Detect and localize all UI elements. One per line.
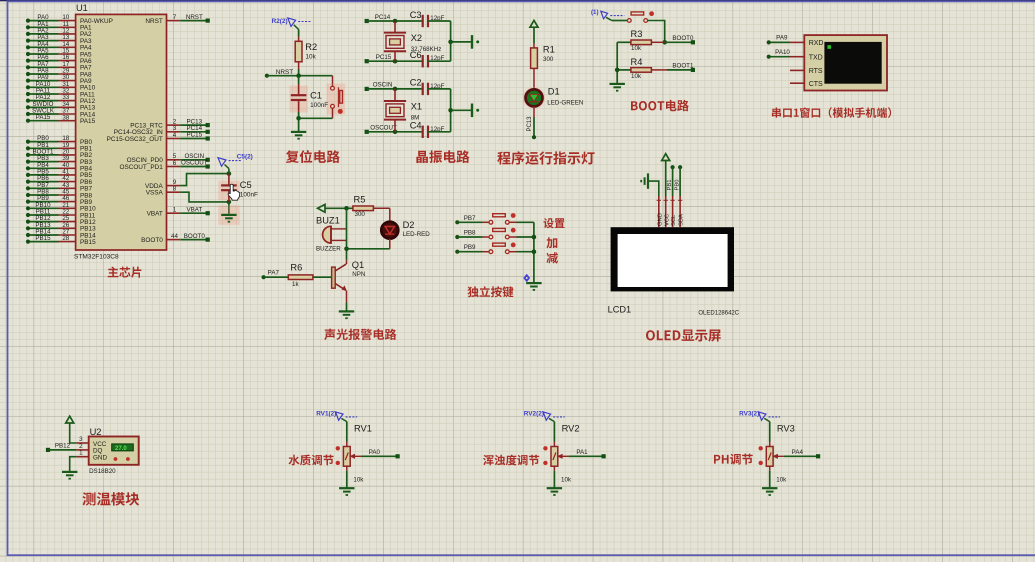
svg-text:BUZ1: BUZ1 (316, 216, 340, 226)
node PA7 (262, 270, 289, 280)
wire R6 to base (313, 276, 332, 278)
node PB7 (455, 215, 489, 225)
wire R1 to D1 (533, 68, 535, 89)
svg-text:C2: C2 (410, 78, 422, 88)
svg-text:PB7: PB7 (464, 215, 476, 222)
svg-text:PA9: PA9 (776, 35, 788, 42)
node PB9 (455, 244, 489, 254)
svg-text:300: 300 (355, 211, 366, 218)
svg-text:PC14: PC14 (375, 14, 391, 21)
svg-text:R3: R3 (631, 29, 643, 39)
wire to boot button (612, 20, 628, 22)
pin PA11 (32) with wire PA11 (26, 88, 95, 99)
svg-text:X2: X2 (411, 33, 422, 43)
svg-text:PC15-OSC32_OUT: PC15-OSC32_OUT (107, 136, 163, 143)
svg-text:C4: C4 (410, 121, 422, 131)
svg-text:CTS: CTS (809, 81, 823, 88)
wire bottom RV1 (346, 466, 348, 488)
pin PA8 (29) with wire PA8 (26, 68, 92, 79)
ground RV1 (339, 488, 354, 495)
text 复位电路 (286, 150, 340, 163)
potentiometer RV2 10k (543, 424, 579, 484)
text 设置 (544, 218, 565, 228)
svg-text:U2: U2 (90, 427, 102, 437)
pin PB1 (19) with wire PB1 (26, 142, 93, 153)
pin PB6 (42) with wire PB6 (26, 175, 93, 186)
node NRST (265, 69, 333, 78)
svg-text:RV1(2): RV1(2) (316, 410, 336, 417)
pin PB10 (21) with wire PB10 (26, 202, 96, 213)
pin OSCIN_PD0 (5) net OSCIN (127, 153, 210, 164)
pin PA1 (11) with wire PA1 (26, 21, 92, 32)
net label RV2(2) flying wire (524, 410, 565, 421)
pin PB2 (20) with wire BOOT1 (26, 148, 93, 159)
svg-text:R5: R5 (354, 194, 366, 204)
power bar terminal (472, 104, 479, 118)
svg-text:4: 4 (173, 132, 177, 139)
resistor R6 1k (288, 263, 313, 288)
svg-text:PB15: PB15 (80, 239, 96, 246)
wire button PB9 to bus (509, 251, 534, 253)
svg-text:PC13: PC13 (527, 116, 533, 132)
power terminal arrow U2 (66, 416, 74, 423)
pin PA14 (37) with wire SWCLK (26, 108, 96, 119)
svg-text:44: 44 (171, 233, 178, 240)
wire button PB8 to bus (509, 236, 534, 238)
svg-text:PB12: PB12 (55, 443, 71, 450)
ground U2 (62, 472, 77, 479)
LED D2 LED-RED (381, 220, 430, 239)
svg-text:PC15: PC15 (187, 132, 203, 139)
ground OLED rotated (641, 173, 648, 188)
svg-text:PB9: PB9 (464, 244, 476, 251)
svg-text:NPN: NPN (352, 271, 365, 278)
crystal X2 32.768KHz (384, 21, 441, 61)
ground RV3 (762, 488, 777, 495)
svg-text:Q1: Q1 (352, 260, 364, 270)
push button PB8 (489, 228, 516, 239)
wire key bus (532, 222, 537, 283)
pin PB13 (26) with wire PB13 (26, 222, 96, 233)
svg-text:RV1: RV1 (354, 424, 372, 434)
capacitor C2 12pF (410, 78, 451, 95)
wire caps common (448, 89, 471, 132)
svg-text:7: 7 (173, 14, 177, 21)
pin VBAT (1) net VBAT (147, 206, 210, 217)
wire button bottom to C1 bottom node (296, 108, 332, 120)
net label (1) flying wire (591, 9, 624, 21)
svg-text:PB1: PB1 (667, 180, 673, 191)
pin PA4 (14) with wire PA4 (26, 41, 92, 52)
svg-text:R2(2): R2(2) (272, 18, 288, 25)
svg-text:27.0: 27.0 (115, 446, 127, 452)
svg-text:10k: 10k (631, 45, 642, 52)
pin RXD wire PA9 (767, 35, 805, 45)
push button PB9 (489, 243, 516, 254)
wire power to R5 node (325, 206, 353, 211)
svg-text:RV2: RV2 (562, 424, 580, 434)
pin PA3 (13) with wire PA3 (26, 34, 92, 45)
svg-text:DS18B20: DS18B20 (89, 468, 116, 475)
svg-text:RTS: RTS (809, 68, 823, 75)
svg-text:RXD: RXD (809, 40, 824, 47)
node C5 top junction (227, 171, 232, 176)
wire VCC pin (665, 161, 667, 196)
node PC14 (365, 14, 422, 24)
svg-text:PA10: PA10 (775, 49, 790, 56)
node OSCOUT (365, 125, 422, 135)
svg-text:X1: X1 (411, 102, 422, 112)
wire VCC to R1 (533, 28, 535, 48)
pin PB4 (40) with wire PB4 (26, 162, 93, 173)
svg-text:PB15: PB15 (35, 235, 51, 242)
node PB8 (455, 230, 489, 240)
svg-text:8: 8 (173, 186, 177, 193)
svg-text:OSCOUT_PD1: OSCOUT_PD1 (119, 164, 163, 171)
ground Q1 (339, 311, 354, 318)
pin PA9 (30) with wire PA9 (26, 74, 92, 85)
sensor U2 DS18B20 (89, 427, 139, 475)
ground under C5 (218, 205, 239, 225)
svg-text:LED-GREEN: LED-GREEN (547, 100, 583, 107)
net label C5(2) flying wire (218, 154, 253, 174)
svg-text:R2: R2 (305, 42, 317, 52)
wire to R2 top (298, 29, 300, 41)
LCD1 OLED screen (608, 227, 740, 316)
svg-text:PB0: PB0 (675, 180, 681, 191)
node OSCIN (365, 82, 422, 92)
node C5 bottom junction (227, 200, 232, 205)
svg-text:PB8: PB8 (464, 230, 476, 237)
wire R2 bottom to NRST node (298, 62, 300, 76)
op-amp U1 STM32F103C8 chip body (74, 3, 167, 260)
svg-text:NRST: NRST (186, 14, 203, 21)
pin NRST (7) net NRST (145, 14, 209, 25)
svg-text:10k: 10k (306, 53, 317, 60)
wire caps common (448, 21, 471, 61)
svg-text:U1: U1 (76, 3, 88, 13)
svg-text:VBAT: VBAT (186, 206, 202, 213)
svg-text:BOOT0: BOOT0 (672, 35, 694, 42)
power terminal arrow left (318, 204, 325, 212)
svg-text:38: 38 (62, 114, 69, 121)
wire GND U2 (70, 450, 89, 472)
svg-text:C3: C3 (410, 10, 422, 20)
pin PA15 (38) with wire PA15 (26, 114, 96, 125)
virtual terminal body (804, 35, 887, 90)
svg-text:VCC: VCC (664, 214, 670, 226)
text 加 (546, 237, 557, 248)
wire emitter to ground (346, 291, 348, 312)
svg-text:PC15: PC15 (376, 54, 392, 61)
net label RV1(2) flying wire (316, 410, 357, 421)
net PA0 wiper (361, 449, 400, 458)
pin PA0-WKUP (10) with wire PA0 (26, 14, 113, 25)
pin BOOT0 (44) net BOOT0 (141, 233, 210, 244)
svg-text:BUZZER: BUZZER (316, 246, 341, 253)
svg-text:RV3: RV3 (777, 424, 795, 434)
ground BOOT (610, 84, 625, 91)
pin PC14-OSC32_IN (3) net PC14 (114, 125, 210, 136)
pin OSCOUT_PD1 (6) net OSCOUT (119, 160, 209, 171)
text 减 (547, 252, 558, 263)
svg-text:C6: C6 (410, 50, 422, 60)
text 测温模块 (82, 492, 139, 506)
svg-text:BOOT0: BOOT0 (141, 237, 163, 244)
net PA1 wiper (569, 449, 606, 458)
wire top to RV2 (553, 422, 555, 447)
resistor R3 10k (617, 29, 665, 52)
wire VSSA to C5 bottom (180, 192, 229, 202)
wire top to RV1 (346, 422, 348, 447)
text 独立按键 (468, 286, 514, 297)
pin PB3 (39) with wire PB3 (26, 155, 93, 166)
pin PA5 (15) with wire PA5 (26, 48, 92, 59)
text 浑浊度调节 (483, 455, 539, 466)
pin PA7 (17) with wire PA7 (26, 61, 92, 72)
svg-text:6: 6 (173, 160, 177, 167)
OLED pin stubs GND VCC SCL SDA (657, 196, 685, 227)
svg-text:R6: R6 (290, 263, 302, 273)
svg-text:VBAT: VBAT (147, 211, 163, 218)
svg-text:PA15: PA15 (80, 118, 96, 125)
pin PB5 (41) with wire PB5 (26, 168, 93, 179)
svg-text:PA1: PA1 (576, 449, 588, 456)
resistor R4 10k (617, 57, 667, 80)
wire C5 to ground (228, 202, 230, 215)
power terminal arrow OLED (662, 154, 670, 161)
text OLED显示屏 (646, 330, 721, 342)
svg-text:10k: 10k (353, 477, 364, 484)
net label R2(2) flying wire (272, 18, 312, 30)
text 程序运行指示灯 (497, 151, 594, 164)
pin PA13 (34) with wire SWDIO (26, 101, 96, 112)
wire R3/R4 left common (615, 42, 620, 84)
text 声光报警电路 (324, 329, 396, 340)
mouse hand cursor (228, 184, 240, 200)
pin CTS stub (790, 82, 804, 84)
text BOOT电路 (631, 100, 689, 112)
svg-text:300: 300 (543, 56, 554, 63)
pin PB15 (28) with wire PB15 (26, 235, 96, 246)
svg-text:R4: R4 (631, 57, 643, 67)
svg-text:TXD: TXD (809, 54, 823, 61)
svg-text:1: 1 (173, 207, 177, 214)
svg-text:100nF: 100nF (240, 192, 258, 199)
wire buzzer bus (344, 208, 349, 260)
svg-text:(1): (1) (591, 9, 599, 16)
svg-text:PA15: PA15 (36, 114, 51, 121)
potentiometer RV1 10k (336, 424, 372, 484)
svg-text:OSCIN: OSCIN (373, 82, 393, 89)
wire SCL with node PB1 (667, 165, 675, 196)
svg-text:OSCOUT: OSCOUT (370, 125, 397, 132)
pin PB9 (46) with wire PB9 (26, 195, 93, 206)
svg-text:BOOT1: BOOT1 (672, 63, 694, 70)
svg-text:RV2(2): RV2(2) (524, 410, 544, 417)
svg-text:GND: GND (93, 454, 107, 461)
wire R5 to D2 (389, 208, 391, 222)
pin PC13_RTC (2) net PC13 (130, 118, 210, 129)
wire SDA with node PB0 (675, 165, 683, 196)
svg-text:10k: 10k (776, 477, 787, 484)
svg-text:SDA: SDA (679, 214, 685, 226)
wire D1 to PC13 (527, 106, 536, 139)
net label RV3(2) flying wire (739, 410, 780, 421)
ground reset (291, 132, 306, 139)
wire to ground (298, 118, 300, 132)
svg-text:10k: 10k (631, 73, 642, 80)
node PC15 (365, 54, 422, 64)
svg-text:100nF: 100nF (310, 102, 328, 109)
pin PA2 (12) with wire PA2 (26, 27, 92, 38)
origin marker diamond (523, 274, 530, 283)
pin PA12 (33) with wire PA12 (26, 94, 96, 105)
text 主芯片 (108, 267, 142, 278)
text 串口1窗口（模拟手机端） (772, 107, 891, 118)
capacitor C5 100nF (218, 174, 258, 202)
svg-text:OLED128642C: OLED128642C (698, 311, 739, 317)
svg-text:NRST: NRST (145, 18, 162, 25)
svg-text:C5(2): C5(2) (237, 154, 253, 161)
pin TXD wire PA10 (767, 49, 805, 59)
potentiometer RV3 10k (759, 424, 795, 484)
svg-text:STM32F103C8: STM32F103C8 (74, 253, 119, 260)
push button PB7 (489, 213, 516, 224)
svg-text:OSCOUT: OSCOUT (181, 160, 208, 167)
transistor Q1 NPN (332, 260, 366, 291)
pin PB12 (25) with wire PB12 (26, 215, 96, 226)
pin PB7 (43) with wire PB7 (26, 182, 93, 193)
pin PB14 (27) with wire PB14 (26, 229, 96, 240)
wire VDDA to C5 top (180, 174, 229, 186)
svg-text:SCL: SCL (671, 214, 677, 226)
power bar terminal (472, 35, 479, 49)
wire NRST node to button (332, 76, 334, 87)
svg-text:C5: C5 (240, 180, 252, 190)
pin VDDA (9) (145, 179, 180, 190)
crystal X1 8M (384, 89, 422, 132)
resistor R1 300 (531, 44, 555, 68)
ground keys (526, 283, 541, 290)
svg-text:RV3(2): RV3(2) (739, 410, 759, 417)
pin RTS stub (790, 69, 804, 71)
wire button to BOOT0 node (648, 21, 667, 45)
resistor R5 300 (353, 194, 390, 218)
svg-text:1: 1 (79, 450, 83, 457)
capacitor C6 12pF (410, 50, 451, 67)
capacitor C4 12pF (410, 121, 451, 138)
wire GND pin to ground (649, 181, 659, 196)
wire bottom RV2 (553, 466, 555, 488)
resistor R2 10k (295, 41, 317, 62)
svg-text:PA4: PA4 (792, 449, 804, 456)
svg-text:PA0: PA0 (369, 449, 381, 456)
pin VSSA (8) (146, 186, 180, 197)
svg-text:C1: C1 (310, 91, 322, 101)
ground RV2 (547, 488, 562, 495)
svg-text:1k: 1k (292, 281, 299, 288)
wire bottom RV3 (769, 466, 771, 488)
svg-text:R1: R1 (543, 44, 555, 54)
wire VCC U2 (70, 423, 89, 443)
text 晶振电路 (416, 150, 469, 163)
push button reset (327, 84, 346, 115)
pin PB8 (45) with wire PB8 (26, 189, 93, 200)
svg-text:D1: D1 (548, 86, 560, 96)
text 水质调节 (289, 455, 334, 466)
capacitor C3 12pF (410, 10, 451, 27)
pin PB11 (22) with wire PB11 (26, 209, 96, 220)
net BOOT1 (667, 63, 695, 73)
pin PC15-OSC32_OUT (4) net PC15 (107, 132, 210, 143)
wire top to RV3 (769, 422, 771, 447)
capacitor C1 100nF (290, 76, 329, 119)
wire D2 bottom to buzzer node (347, 239, 390, 249)
push button BOOT (627, 11, 654, 22)
svg-text:10k: 10k (561, 477, 572, 484)
svg-text:D2: D2 (403, 220, 415, 230)
LED D1 LED-GREEN (523, 86, 583, 109)
svg-text:VSSA: VSSA (146, 190, 164, 197)
svg-text:BOOT0: BOOT0 (184, 233, 206, 240)
pin PA10 (31) with wire PA10 (26, 81, 96, 92)
buzzer BUZ1 (316, 216, 347, 253)
pin PB0 (18) with wire PB0 (26, 135, 93, 146)
svg-text:28: 28 (62, 235, 69, 242)
wire button PB7 to bus (509, 221, 534, 223)
svg-text:LED-RED: LED-RED (403, 231, 431, 238)
net BOOT0 (665, 35, 695, 45)
svg-text:LCD1: LCD1 (608, 304, 632, 314)
net PA4 wiper (784, 449, 820, 458)
svg-text:GND: GND (657, 213, 663, 226)
text PH调节 (714, 454, 753, 465)
power terminal VCC arrow (530, 20, 538, 27)
node PB12 wire DQ (46, 443, 89, 453)
svg-text:PA7: PA7 (268, 270, 280, 277)
pin PA6 (16) with wire PA6 (26, 54, 92, 65)
